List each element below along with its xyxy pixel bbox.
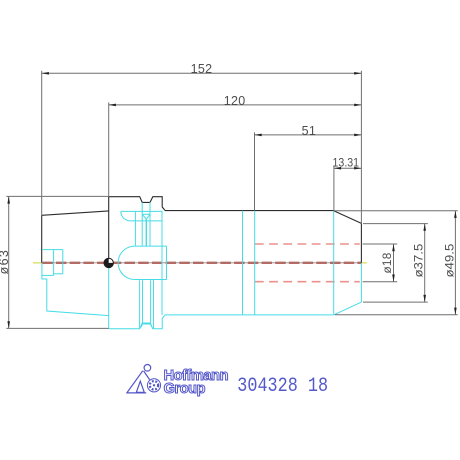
flange face (black, top half) <box>108 197 110 263</box>
dimension 51 <box>255 124 362 138</box>
svg-text:51: 51 <box>302 124 317 138</box>
Hoffmann Group logo mark <box>126 365 160 393</box>
shank outline bottom (cyan) <box>42 263 109 316</box>
svg-text:152: 152 <box>191 62 213 76</box>
dimension diameter 18 <box>380 244 395 282</box>
Hoffmann Group logo text <box>164 368 228 397</box>
ball at flange face center <box>104 258 113 267</box>
bore hidden line top (pink dashed) <box>255 243 360 245</box>
flange and groove outline top (black) <box>109 197 334 211</box>
nose face bottom (cyan) <box>360 263 362 302</box>
collar hidden lines bottom (cyan) <box>140 280 154 328</box>
dimension 120 <box>109 94 362 108</box>
nose face (black top half) <box>360 223 362 262</box>
svg-text:ø49.5: ø49.5 <box>442 243 456 277</box>
body internal vertical lines (cyan) <box>162 211 334 315</box>
centerline gray underline <box>42 262 362 264</box>
collar hidden lines (cyan) <box>121 202 162 246</box>
svg-text:ø18: ø18 <box>380 252 394 273</box>
centerline red dashes <box>42 262 361 264</box>
extension lines horizontal left (gray) <box>6 196 108 328</box>
svg-text:ø37.5: ø37.5 <box>412 243 426 277</box>
dimension 13.31 <box>333 156 362 170</box>
dimension diameter 63 <box>0 196 11 328</box>
internal bore lines o16 (cyan) <box>135 246 167 279</box>
dimension diameter 49.5 <box>442 211 456 315</box>
svg-text:13.31: 13.31 <box>333 156 360 170</box>
nose chamfer bottom (cyan) <box>334 302 362 315</box>
dimension 152 <box>42 62 362 76</box>
shank outline top (black) <box>42 211 109 263</box>
dimension diameter 37.5 <box>412 224 426 303</box>
centerline yellow stubs <box>33 262 367 264</box>
svg-text:120: 120 <box>224 94 246 108</box>
flange and groove outline bottom (cyan) <box>109 315 334 329</box>
internal bore cavity arc (cyan) <box>118 246 135 279</box>
svg-text:304328 18: 304328 18 <box>237 375 328 398</box>
extension lines vertical (gray) <box>42 71 362 224</box>
coolant tube detail at shank face (cyan) <box>42 250 63 276</box>
bore hidden line bottom (pink dashed) <box>255 281 360 283</box>
svg-text:ø63: ø63 <box>0 249 11 274</box>
extension lines horizontal right (gray) <box>335 211 458 315</box>
svg-text:Group: Group <box>164 381 206 397</box>
flange face bottom (cyan) <box>108 263 110 329</box>
nose chamfer top (black) <box>334 211 362 224</box>
